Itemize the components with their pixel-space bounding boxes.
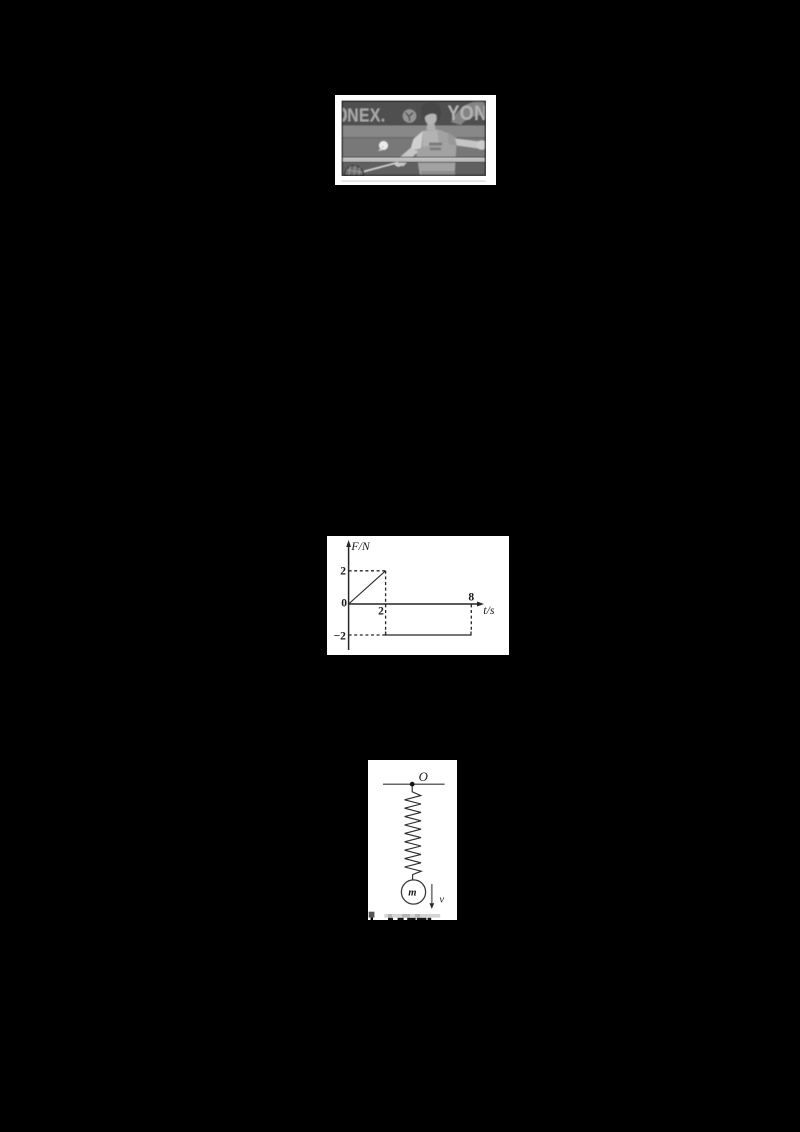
- faint strip in bottom margin: [342, 180, 487, 182]
- extended arm (right): [455, 139, 480, 149]
- x-axis: [349, 603, 479, 605]
- chest text marks: [429, 143, 442, 146]
- photo panel: badminton player photo with white frame: [335, 95, 496, 185]
- jersey torso: [414, 130, 457, 177]
- cut-off caption text tops: [388, 918, 393, 920]
- net band in front: [342, 158, 487, 162]
- bottom smudge light strip: [384, 914, 440, 918]
- player hair: [421, 103, 441, 121]
- svg-text:m: m: [408, 887, 416, 898]
- big swoosh behind YON: [451, 101, 486, 125]
- racket head: [343, 164, 364, 184]
- velocity arrow: [431, 884, 433, 905]
- svg-text:v: v: [439, 894, 444, 905]
- svg-text:F/N: F/N: [350, 539, 370, 553]
- dashed F=-2 horizontal: [349, 634, 386, 636]
- graph panel: F/N vs t/s graph: [327, 536, 509, 655]
- solid F=-2 segment: [386, 632, 471, 636]
- svg-text:0: 0: [341, 598, 347, 610]
- diagonal force ramp 0 to 2: [349, 571, 386, 604]
- svg-text:YON: YON: [448, 102, 488, 126]
- shuttlecock: [379, 141, 388, 150]
- player face: [425, 111, 437, 125]
- mass circle: [401, 880, 425, 904]
- racket shaft: [364, 163, 398, 172]
- right sleeve (white band): [410, 131, 423, 151]
- right fist: [477, 140, 487, 149]
- lower wall: [342, 138, 487, 158]
- spring panel: mass on spring diagram: [368, 760, 457, 920]
- racket arm (down-left): [395, 148, 418, 167]
- y-axis: [348, 543, 350, 650]
- shorts: [421, 171, 455, 176]
- svg-text:t/s: t/s: [483, 603, 495, 617]
- svg-text:2: 2: [378, 606, 384, 618]
- partial letter left edge: [341, 109, 346, 122]
- spring: [405, 786, 422, 880]
- jersey highlight: [423, 130, 439, 147]
- small yonex logo swoosh: [403, 109, 417, 123]
- attachment dot: [410, 782, 415, 787]
- bottom court region: [342, 157, 487, 176]
- dashed t=8 vertical: [470, 604, 472, 632]
- neck: [427, 125, 436, 131]
- racket hand: [394, 158, 403, 167]
- ceiling line: [383, 783, 445, 785]
- dashed t=2 vertical: [385, 571, 387, 635]
- svg-text:2: 2: [340, 565, 346, 577]
- bottom smudge dark block: [369, 912, 375, 918]
- svg-text:NEX.: NEX.: [347, 104, 385, 126]
- left sleeve: [448, 133, 459, 147]
- dashed F=2 horizontal: [349, 570, 386, 572]
- photo dark border: [342, 101, 486, 176]
- banner background: [342, 101, 487, 126]
- svg-text:−2: −2: [334, 630, 347, 642]
- svg-text:8: 8: [468, 591, 474, 603]
- upper wall: [342, 126, 487, 138]
- svg-text:O: O: [419, 770, 428, 784]
